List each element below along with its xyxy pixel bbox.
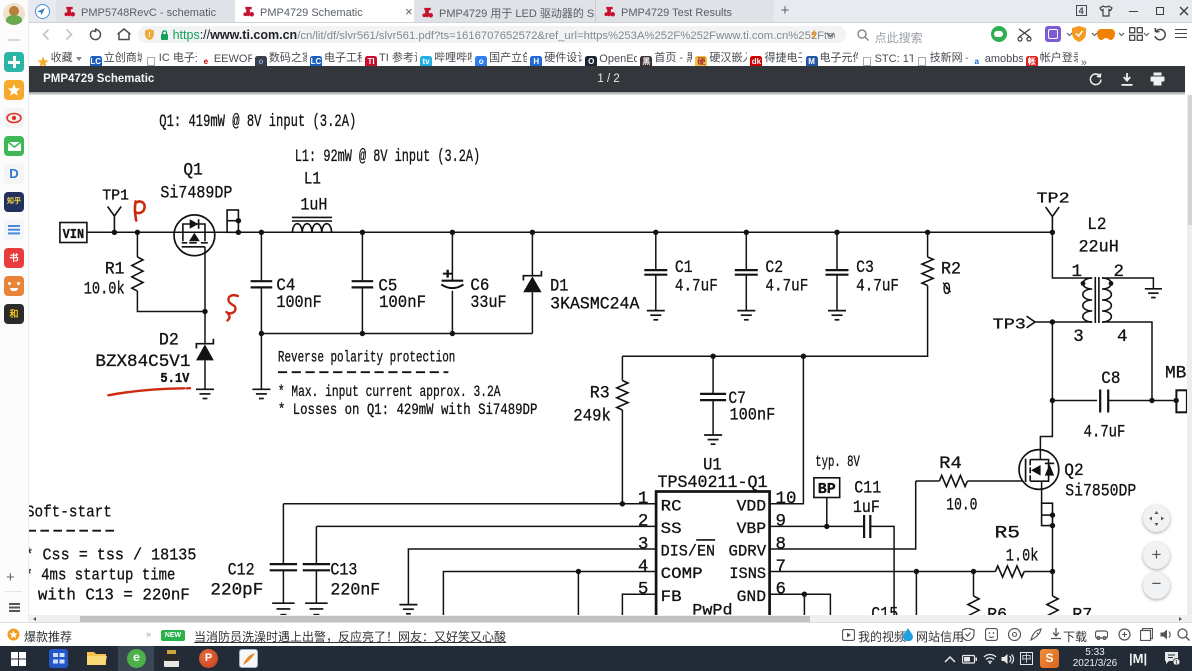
horizontal scrollbar [29, 615, 1192, 622]
wire TP3 node down to C8 [1051, 322, 1053, 400]
ground at input cap rail [260, 334, 262, 390]
svg-text:Si7489DP: Si7489DP [160, 184, 232, 204]
junction RC/R3 [619, 501, 624, 506]
svg-text:* 4ms startup time: * 4ms startup time [29, 567, 175, 586]
junction C1/rail [653, 230, 658, 235]
wire GND net (pin6) [769, 594, 830, 622]
wire Q2 drain up to C8 node [1040, 400, 1052, 459]
wire SS net (pin2 to C13) [316, 525, 656, 527]
windows taskbar [0, 646, 1192, 671]
red annotation underline [108, 388, 189, 395]
svg-text:L1: L1 [303, 169, 320, 189]
svg-text:4.7uF: 4.7uF [765, 276, 808, 296]
svg-text:22uH: 22uH [1078, 238, 1118, 258]
junction C4/rail [258, 230, 263, 235]
wire L2 pin4 down [1102, 322, 1152, 400]
wire C11 to C15 branch [870, 526, 894, 622]
svg-text:BP: BP [817, 482, 835, 498]
L2 core [1094, 277, 1096, 323]
svg-text:L1: 92mW @ 8V input (3.2A): L1: 92mW @ 8V input (3.2A) [294, 147, 479, 167]
vertical scrollbar [1187, 95, 1192, 615]
ground at C2 [737, 310, 755, 312]
svg-text:4.7uF: 4.7uF [1083, 423, 1125, 443]
svg-text:1: 1 [1175, 659, 1179, 665]
junction SJ1 pin on rail [235, 230, 240, 235]
svg-text:VIN: VIN [62, 228, 83, 243]
svg-text:BZX84C5V1: BZX84C5V1 [95, 352, 190, 372]
junction C6 return [449, 331, 454, 336]
svg-text:C11: C11 [854, 478, 881, 498]
port VIN [59, 223, 86, 243]
svg-text:10.0k: 10.0k [83, 279, 124, 299]
junction R1 bottom / Q1 gate net [202, 309, 207, 314]
wire rail down to L2 pin1 [1052, 232, 1092, 278]
junction C8 left node [1049, 398, 1054, 403]
svg-text:SS: SS [660, 520, 681, 538]
svg-text:8: 8 [775, 534, 785, 554]
ground at C1 [646, 310, 664, 312]
phase dot pin2 [1108, 281, 1113, 286]
svg-text:220pF: 220pF [210, 580, 263, 600]
svg-text:Q1: Q1 [183, 161, 202, 181]
svg-text:6: 6 [775, 579, 785, 599]
svg-text:5: 5 [637, 579, 648, 599]
wire L2 pin2 to ground [1102, 278, 1153, 289]
wire BP to VBP net [825, 497, 827, 526]
svg-text:5.1V: 5.1V [160, 372, 190, 387]
wire Q2 source down [1040, 481, 1042, 503]
svg-text:Q2: Q2 [1064, 461, 1083, 481]
svg-text:GND: GND [736, 588, 765, 606]
phase dot pin1 [1080, 281, 1085, 286]
wire Q1 source down to D2 [204, 247, 206, 343]
junction GND branch [801, 591, 806, 596]
L2 secondary winding [1102, 278, 1111, 322]
svg-text:4.7uF: 4.7uF [674, 276, 717, 296]
ground at DIS/EN [399, 604, 417, 606]
svg-text:VDD: VDD [736, 497, 765, 515]
wire R4 to Q2 gate [967, 480, 1022, 482]
svg-text:4: 4 [637, 557, 648, 577]
svg-text:TP1: TP1 [102, 187, 129, 204]
red annotation S [226, 295, 237, 320]
svg-text:1uF: 1uF [852, 498, 879, 518]
svg-text:COMP: COMP [660, 565, 702, 583]
wire COMP net [443, 571, 656, 621]
svg-text:R3: R3 [589, 383, 609, 403]
svg-text:10.0: 10.0 [946, 495, 977, 515]
svg-text:R5: R5 [994, 524, 1019, 544]
browser status bar [0, 622, 1192, 646]
svg-text:DIS/EN: DIS/EN [660, 543, 714, 561]
jumper/net-tie SJ2 at Q2 source [1041, 503, 1052, 525]
wire ISNS branch down [915, 571, 917, 621]
svg-text:R1: R1 [104, 259, 123, 279]
bookmarks bar [29, 45, 1192, 66]
ground at C7 [704, 434, 722, 436]
svg-text:ISNS: ISNS [729, 565, 766, 583]
svg-text:3KASMC24A: 3KASMC24A [550, 295, 640, 315]
svg-text:3: 3 [1073, 327, 1084, 347]
junction ISNS branch 1 [913, 569, 918, 574]
junction COMP branch [575, 569, 580, 574]
junction ISNS/R6 [970, 569, 975, 574]
browser tab bar [29, 0, 1192, 23]
svg-text:R4: R4 [939, 454, 962, 474]
svg-text:* Max. input current approx. 3: * Max. input current approx. 3.2A [277, 383, 500, 401]
red annotation P [135, 202, 145, 221]
svg-text:C8: C8 [1101, 369, 1120, 389]
svg-text:MB: MB [1165, 363, 1186, 383]
svg-text:TP2: TP2 [1036, 191, 1069, 208]
svg-text:C12: C12 [227, 560, 254, 580]
junction at MB pin [1173, 398, 1178, 403]
junction VDD riser [800, 354, 805, 359]
wire RC net (pin1 to R3/C12) [283, 503, 656, 505]
ground at C3 [828, 310, 846, 312]
svg-text:4: 4 [1117, 327, 1128, 347]
svg-text:1uH: 1uH [300, 195, 327, 215]
svg-text:VBP: VBP [736, 520, 765, 538]
svg-text:1.0k: 1.0k [1005, 546, 1038, 566]
svg-text:Soft-start: Soft-start [29, 503, 112, 522]
junction R2/rail [924, 230, 929, 235]
svg-text:100nF: 100nF [276, 293, 321, 313]
wire VBP net (pin9) [769, 525, 862, 527]
junction SJ2 mid pin [1049, 512, 1054, 517]
svg-text:RC: RC [660, 497, 681, 515]
svg-text:with C13 = 220nF: with C13 = 220nF [37, 587, 189, 606]
svg-text:1: 1 [1071, 262, 1082, 282]
schematic page (PDF content) [29, 95, 1192, 622]
junction C5 return [359, 331, 364, 336]
jumper/net-tie SJ1 at Q1 drain [227, 210, 238, 232]
junction BP/VBP [824, 524, 829, 529]
svg-text:!: ! [148, 32, 150, 39]
wire R2 to VDD net [622, 286, 927, 357]
ground at C13 [305, 602, 327, 604]
svg-text:TP3: TP3 [992, 317, 1025, 334]
svg-text:D1: D1 [550, 277, 568, 297]
wire FB net [622, 594, 656, 622]
svg-text:C2: C2 [765, 258, 783, 278]
junction C6/rail [449, 230, 454, 235]
wire DIS/EN net to ground [408, 549, 656, 605]
svg-text:Reverse polarity protection: Reverse polarity protection [277, 349, 454, 367]
svg-text:4.7uF: 4.7uF [856, 276, 899, 296]
junction R5/Q2 source [1049, 569, 1054, 574]
svg-text:* Css = tss / 18135: * Css = tss / 18135 [29, 546, 196, 565]
svg-text:9: 9 [775, 512, 785, 532]
ground at C12 [272, 602, 294, 604]
junction TP1/rail [111, 230, 116, 235]
browser side toolbar [0, 0, 29, 622]
wire GND branch down [803, 594, 805, 622]
svg-text:3: 3 [637, 534, 648, 554]
svg-text:* Losses on Q1: 429mW with Si7: * Losses on Q1: 429mW with Si7489DP [277, 401, 536, 419]
svg-text:FB: FB [660, 588, 681, 606]
wire to R6 [972, 571, 974, 595]
browser address bar [29, 23, 1192, 46]
wire VIN rail (main input rail y=232) [86, 231, 1051, 233]
junction D1/rail [529, 230, 534, 235]
ground at L2 pin2 [1144, 288, 1161, 290]
overline on EN [696, 539, 715, 541]
pdf zoom controls [1143, 505, 1170, 532]
svg-text:typ. 8V: typ. 8V [815, 453, 860, 471]
ground at D2 [196, 388, 214, 390]
svg-text:100nF: 100nF [379, 293, 426, 313]
svg-text:2: 2 [1113, 262, 1124, 282]
svg-text:220nF: 220nF [330, 580, 380, 600]
wire COMP branch down [577, 571, 579, 621]
junction SJ1 pin mid [235, 218, 240, 223]
wire input cap return rail y=333.5 [261, 333, 532, 335]
junction C2/rail [743, 230, 748, 235]
pdf viewer toolbar [29, 66, 1185, 92]
junction R1/rail [134, 230, 139, 235]
wire GDRV net (pin8) [769, 481, 915, 549]
svg-text:7: 7 [775, 557, 785, 577]
svg-text:C1: C1 [674, 258, 692, 278]
wire ISNS net (pin7) [769, 570, 995, 572]
junction C4 return [258, 331, 263, 336]
wire VDD riser to U1 pin 10 [769, 356, 803, 503]
junction TP3 node [1049, 319, 1054, 324]
svg-text:33uF: 33uF [470, 293, 506, 313]
svg-text:Si7850DP: Si7850DP [1065, 482, 1136, 502]
svg-text:100nF: 100nF [729, 405, 775, 425]
junction C7/VDD net [710, 354, 715, 359]
svg-text:249k: 249k [573, 406, 611, 426]
wire TP3 to L2 pin3 [1035, 321, 1092, 323]
svg-text:TPS40211-Q1: TPS40211-Q1 [657, 473, 767, 493]
svg-text:C13: C13 [330, 560, 357, 580]
svg-text:2: 2 [637, 512, 648, 532]
junction SJ2 bottom pin [1049, 523, 1054, 528]
junction L2 pin4 / C8 [1149, 398, 1154, 403]
junction TP2/rail [1049, 230, 1054, 235]
junction C3/rail [834, 230, 839, 235]
svg-text:L2: L2 [1087, 215, 1106, 235]
wire Q2 source to R5/R7 [1051, 526, 1053, 596]
svg-text:D2: D2 [158, 331, 178, 351]
svg-text:R2: R2 [941, 260, 961, 280]
svg-text:GDRV: GDRV [728, 543, 766, 561]
junction C5/rail [359, 230, 364, 235]
svg-text:C3: C3 [856, 258, 874, 278]
svg-text:Q1: 419mW @ 8V input (3.2A): Q1: 419mW @ 8V input (3.2A) [159, 112, 356, 132]
svg-text:10: 10 [775, 489, 796, 509]
svg-text:1: 1 [637, 489, 648, 509]
